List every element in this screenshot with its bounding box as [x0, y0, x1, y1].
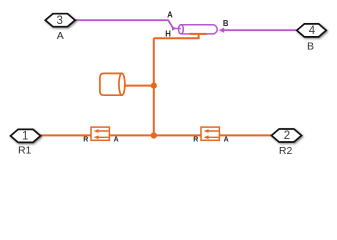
svg-text:A: A: [114, 137, 119, 144]
svg-text:R1: R1: [18, 145, 32, 157]
svg-text:B: B: [307, 40, 314, 52]
svg-text:1: 1: [22, 131, 28, 143]
svg-text:A: A: [224, 137, 229, 144]
wire orange bottom R1 to R2: [41, 134, 272, 136]
port 2 hexagon: [272, 129, 302, 142]
svg-text:A: A: [167, 11, 173, 20]
wire A stem into port: [172, 27, 181, 29]
svg-text:H: H: [165, 30, 171, 39]
solenoid U1 (purple cylinder): [179, 25, 218, 34]
arrowhead into solenoid left: [172, 26, 177, 31]
wire orange link cylinder to vertical: [125, 85, 154, 87]
port 4 hexagon: [297, 24, 326, 37]
svg-text:B: B: [223, 19, 229, 28]
port 1 hexagon: [11, 129, 41, 142]
svg-text:R: R: [83, 137, 88, 144]
wire orange from H port: [154, 34, 207, 38]
svg-text:3: 3: [56, 15, 62, 27]
svg-text:4: 4: [309, 25, 316, 37]
svg-text:2: 2: [284, 130, 290, 142]
orange cylinder (inertia block): [100, 73, 125, 95]
junction node (upper): [151, 83, 157, 89]
svg-text:A: A: [57, 30, 64, 42]
port 3 hexagon: [45, 14, 75, 27]
resistance box 2: [193, 127, 228, 144]
svg-text:R2: R2: [279, 145, 293, 157]
arrowhead into solenoid right: [219, 28, 225, 33]
wire purple B from port 4 to solenoid: [224, 29, 297, 31]
junction node (lower): [151, 132, 157, 138]
wire purple A from port 3 to solenoid: [75, 20, 173, 27]
wire orange vertical: [153, 38, 155, 135]
svg-text:R: R: [193, 137, 198, 144]
resistance box 1: [83, 127, 118, 144]
